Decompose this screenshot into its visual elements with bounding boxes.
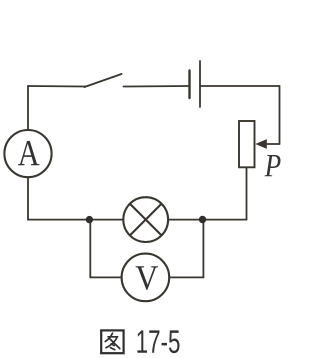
wire right vertical down to wiper xyxy=(279,86,281,144)
wire switch to battery xyxy=(124,85,190,88)
wire battery to top-right corner xyxy=(200,85,280,87)
wire rheostat bottom vertical xyxy=(246,167,248,219)
wire lamp right to node xyxy=(168,219,202,221)
wire node to lamp left xyxy=(89,219,123,221)
rheostat wiper arrowhead xyxy=(255,139,266,149)
wire left vertical (top-left corner to ammeter top) xyxy=(27,86,29,130)
label P xyxy=(264,155,280,176)
switch S lever xyxy=(85,74,122,87)
lamp L xyxy=(123,197,168,242)
wire node to bottom-right corner xyxy=(203,219,247,221)
wire voltmeter branch right vertical xyxy=(202,220,204,278)
caption text 17-5 xyxy=(137,330,179,353)
wire voltmeter branch left horizontal xyxy=(90,276,121,278)
caption character 图 xyxy=(101,330,123,353)
node left junction dot xyxy=(86,216,93,223)
ammeter A xyxy=(4,130,51,177)
wire voltmeter branch right horizontal xyxy=(169,276,203,278)
node right junction dot xyxy=(199,216,206,223)
wire top from corner to switch xyxy=(28,85,85,88)
wire ammeter bottom down xyxy=(27,178,29,220)
rheostat body xyxy=(239,121,255,167)
battery short plate (negative) xyxy=(188,71,190,99)
wire voltmeter branch left vertical xyxy=(89,220,91,278)
voltmeter V xyxy=(122,254,170,302)
wiper wire horizontal xyxy=(265,143,280,145)
battery long plate (positive) xyxy=(199,61,201,107)
wire bottom-left horizontal to node xyxy=(28,219,89,221)
